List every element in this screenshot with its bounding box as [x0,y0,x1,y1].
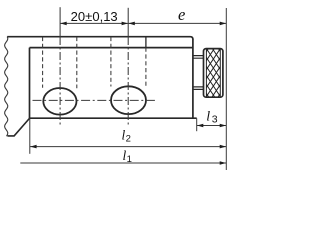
svg-text:2: 2 [126,134,131,145]
l2 left extension line [29,119,31,154]
frame right edge [192,39,194,118]
l3 left extension line [196,118,198,131]
dimension line e [128,22,226,24]
clamp screw boss upper [194,56,204,59]
clamp screw boss lower [194,87,204,90]
hole 1 ellipse [43,88,76,115]
hole 2 right wall hidden line [145,48,147,87]
break line (wavy) [5,37,8,136]
dimension line 20±0,13 [60,22,128,24]
svg-text:1: 1 [127,154,132,165]
right extension line [225,8,227,170]
hole 1 left wall hidden line [42,37,44,88]
hole 1 right wall hidden line [76,37,78,88]
frame left edge [29,48,31,119]
dimension line l1 [20,162,226,164]
knurled knob outline [204,49,223,98]
svg-text:3: 3 [212,114,218,126]
svg-text:20±0,13: 20±0,13 [71,9,118,24]
beam top edge [7,37,193,40]
knob face band lines [206,49,220,97]
frame upper rail line [30,47,193,49]
svg-text:l: l [206,110,210,125]
dimension line l2 [30,146,226,148]
hole 2 vertical centerline [127,8,129,37]
hole 1 vertical centerline [59,7,61,37]
horizontal centerline through holes [33,99,158,101]
frame bottom edge [30,117,197,119]
hole 2 left wall hidden line [110,37,112,87]
svg-text:e: e [178,5,185,24]
dimension line l3 [197,125,227,127]
lower-left chamfer diagonal [8,118,30,136]
hole 2 ellipse [111,86,146,114]
frame step edge solid [145,37,147,48]
